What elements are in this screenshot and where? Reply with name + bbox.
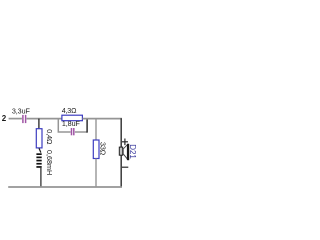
node A junction lead down to R1 <box>38 119 40 129</box>
svg-text:4,3Ω: 4,3Ω <box>62 106 77 115</box>
resistor R1 body <box>36 129 42 148</box>
speaker D21 magnet rectangle <box>119 147 122 155</box>
speaker D21 cone rim band <box>127 144 129 160</box>
wire R2 to node B and speaker branch <box>83 118 122 120</box>
node B lead down to R3 <box>95 119 97 140</box>
ground return rail <box>8 186 122 188</box>
wire speaker branch vertical <box>120 118 122 187</box>
plus mark of driver D21 <box>122 139 128 146</box>
wire L1 to ground rail <box>40 168 42 187</box>
svg-text:0,4Ω: 0,4Ω <box>45 129 54 145</box>
svg-text:D21: D21 <box>128 144 137 159</box>
svg-text:2: 2 <box>2 114 7 123</box>
right vertical of parallel group <box>86 119 88 133</box>
inductor L1 coil <box>36 153 41 168</box>
svg-text:1,8uF: 1,8uF <box>62 119 81 128</box>
svg-text:33Ω: 33Ω <box>98 142 107 156</box>
speaker D21 cone outline <box>123 144 128 159</box>
wire terminal 2 to C1 <box>9 118 22 120</box>
svg-text:0,68mH: 0,68mH <box>45 150 54 175</box>
resistor R2 body <box>62 115 83 121</box>
minus mark of driver D21 <box>122 166 128 168</box>
wire C1 to node A and on to R2 <box>27 118 63 120</box>
resistor R3 body <box>93 140 99 159</box>
svg-text:3,3uF: 3,3uF <box>12 106 31 115</box>
capacitor C1 plates <box>23 115 26 123</box>
wire R3 to ground rail <box>95 159 97 188</box>
left vertical of parallel group <box>58 119 70 132</box>
wire C2 to right vertical <box>75 131 88 133</box>
capacitor C2 plates <box>72 128 74 135</box>
wire R1 to L1 <box>39 148 41 152</box>
